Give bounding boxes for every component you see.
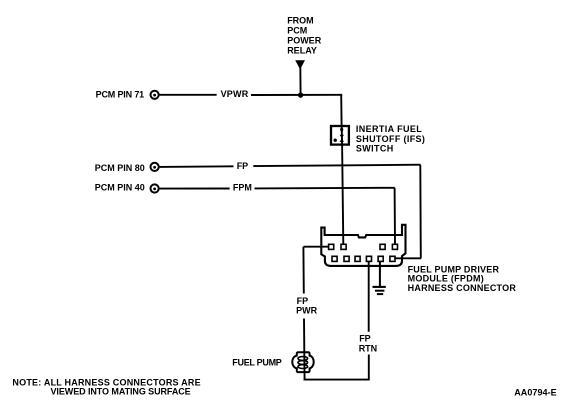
- switch S1 inertia fuel shutoff box: [331, 126, 349, 145]
- svg-text:SWITCH: SWITCH: [356, 144, 393, 154]
- pin B2: [344, 256, 349, 261]
- svg-text:RELAY: RELAY: [287, 46, 317, 56]
- IFS contact hourglass: [340, 135, 344, 138]
- svg-text:PWR: PWR: [296, 305, 317, 315]
- pin B6: [390, 256, 395, 261]
- connector pin circle PCM PIN 71: [151, 91, 159, 99]
- wire FP RTN lower: [368, 355, 370, 381]
- wire FP PWR from pin T1: [303, 246, 329, 248]
- wire: arrow to VPWR junction: [299, 66, 301, 95]
- pin B5: [378, 256, 383, 261]
- wire FP left segment: [159, 165, 233, 168]
- wire FP into pin B6: [396, 257, 422, 259]
- pump wire through body: [303, 351, 305, 373]
- wire VPWR right segment: [251, 94, 342, 96]
- connector pin circle PCM PIN 40: [151, 184, 159, 192]
- motor M1 fuel pump symbol: [292, 351, 313, 373]
- svg-text:VIEWED INTO MATING SURFACE: VIEWED INTO MATING SURFACE: [51, 387, 191, 397]
- power feed arrow from PCM power relay: [295, 60, 305, 69]
- pin B3: [355, 256, 360, 261]
- svg-text:FP: FP: [359, 333, 371, 343]
- wire FP PWR drop lower: [303, 319, 305, 352]
- connector pin circle PCM PIN 80: [151, 163, 159, 171]
- pin T1: [329, 244, 334, 249]
- svg-text:PCM: PCM: [287, 25, 307, 35]
- label FP RTN: [359, 333, 378, 353]
- node FROM PCM POWER RELAY label: [287, 16, 322, 56]
- ground symbol: [373, 287, 386, 294]
- connector J1 FPDM harness connector outline: [321, 225, 405, 266]
- ground wire from pin B5: [379, 262, 381, 287]
- pin T2: [341, 244, 346, 249]
- wire pump bottom to FP RTN: [304, 379, 370, 381]
- wire FPM left segment: [159, 188, 229, 190]
- wire IFS to FPDM pin T2: [342, 145, 343, 244]
- node junction VPWR: [298, 92, 303, 97]
- svg-text:PCM PIN 71: PCM PIN 71: [96, 90, 145, 100]
- wire pump bottom drop: [304, 373, 306, 381]
- IFS contact dot left: [334, 139, 337, 142]
- wire FP PWR drop upper: [302, 247, 304, 294]
- label FP PWR: [296, 296, 317, 315]
- pin T3: [380, 244, 385, 249]
- svg-text:POWER: POWER: [287, 36, 322, 46]
- svg-text:INERTIA FUEL: INERTIA FUEL: [356, 124, 422, 134]
- pin B1: [332, 256, 337, 261]
- svg-text:VPWR: VPWR: [221, 89, 249, 99]
- label INERTIA FUEL SHUTOFF (IFS) SWITCH: [356, 124, 425, 153]
- wire FPM right segment: [255, 187, 395, 190]
- svg-text:PCM PIN 40: PCM PIN 40: [95, 183, 145, 193]
- note text: [12, 377, 200, 396]
- pin B4: [366, 256, 371, 261]
- wire FPM drop to pin T4: [394, 188, 396, 244]
- wire through IFS box: [341, 126, 343, 145]
- wire FP drop on right: [419, 165, 422, 259]
- pump coils: [298, 357, 308, 361]
- svg-text:FPM: FPM: [233, 183, 252, 193]
- label FUEL PUMP DRIVER MODULE (FPDM) HARNESS CONNECTOR: [408, 264, 517, 293]
- svg-text:RTN: RTN: [359, 344, 378, 354]
- pin T4: [392, 244, 397, 249]
- svg-text:HARNESS CONNECTOR: HARNESS CONNECTOR: [408, 283, 517, 293]
- IFS contact dot top: [340, 128, 343, 131]
- svg-text:FUEL PUMP: FUEL PUMP: [232, 358, 281, 368]
- svg-text:PCM PIN 80: PCM PIN 80: [95, 163, 145, 173]
- svg-text:FROM: FROM: [287, 16, 314, 26]
- svg-text:AA0794-E: AA0794-E: [514, 388, 557, 398]
- pump body: [292, 352, 313, 372]
- wire FP RTN upper from pin B4: [368, 262, 370, 332]
- wire FP right segment: [253, 165, 420, 166]
- wire VPWR left segment: [159, 94, 216, 96]
- svg-text:FP: FP: [237, 161, 249, 171]
- wire: drop to IFS switch: [340, 95, 342, 126]
